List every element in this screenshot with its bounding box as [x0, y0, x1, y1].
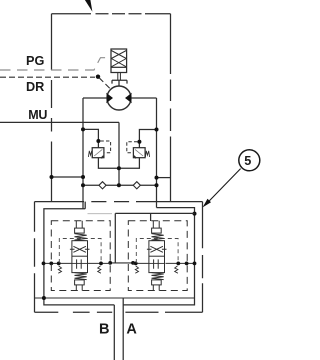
- body rect: [149, 241, 165, 273]
- motor left port line: [83, 97, 107, 99]
- shuttle dot left: [81, 183, 85, 187]
- inner box tab left: [84, 202, 86, 209]
- check spring right: [98, 266, 101, 273]
- dot cross right: [131, 261, 135, 265]
- lower cell pins: [77, 259, 82, 268]
- left valve branch: [83, 129, 98, 147]
- DR dashed line: [0, 76, 95, 78]
- left valve spring: [88, 151, 92, 157]
- dot on right work line: [155, 176, 159, 180]
- T-bar with ticks: [112, 80, 127, 83]
- top spring coil: [75, 234, 87, 241]
- check valve diamond 1: [99, 182, 106, 189]
- bottom spring coil: [75, 273, 87, 280]
- top seat: [152, 228, 162, 233]
- motor right port line: [131, 97, 157, 99]
- svg-text:MU: MU: [28, 108, 47, 122]
- motor right arrowhead: [125, 93, 132, 103]
- svg-text:A: A: [126, 322, 137, 338]
- outer box right edge dashed: [202, 202, 204, 313]
- right cartridge dashed box: [128, 221, 187, 291]
- guides: [153, 221, 159, 228]
- junction dot right branch: [155, 128, 159, 132]
- right valve branch: [139, 130, 156, 148]
- top spring coil: [152, 234, 164, 241]
- shuttle dot right: [155, 183, 159, 187]
- right valve arrow: [135, 149, 143, 156]
- right valve outlet: [119, 158, 139, 169]
- bottom guides: [76, 285, 82, 291]
- right pilot sub-box dashed: [136, 239, 178, 264]
- body rect: [72, 241, 88, 273]
- junction dot left branch: [81, 127, 85, 131]
- leader arrow at top: [85, 0, 93, 12]
- dot on left work line: [81, 175, 85, 179]
- check spring left: [58, 266, 61, 273]
- body mid line: [149, 255, 165, 257]
- motor left arrowhead: [106, 93, 113, 103]
- top seat: [75, 228, 85, 233]
- spring box (control): [111, 49, 127, 73]
- MU down line: [118, 122, 120, 185]
- svg-text:PG: PG: [26, 54, 44, 68]
- gallery through body: [149, 262, 165, 264]
- outer box left edge dashed: [34, 202, 36, 313]
- left work line vertical: [82, 98, 84, 209]
- left cartridge group: [51, 221, 110, 291]
- dot inner box right: [193, 212, 197, 216]
- dots near left cartridge: [49, 262, 53, 266]
- left relief valve box: [92, 148, 104, 158]
- B pipe: [113, 305, 115, 360]
- DR dashed diagonal to motor case: [99, 78, 110, 89]
- central pipe: [115, 213, 194, 263]
- bottom spring coil: [152, 273, 164, 280]
- right valve spring: [145, 151, 149, 157]
- check valve diamond 2: [133, 182, 140, 189]
- valve block outer box: [35, 201, 203, 203]
- left pilot sub-box dashed: [59, 239, 101, 264]
- enclosure left dashed line: [51, 14, 53, 202]
- right cartridge group: [128, 221, 187, 291]
- shuttle line: [83, 184, 157, 186]
- bottom guides: [153, 285, 159, 291]
- gallery through body: [72, 262, 88, 264]
- inner box faint segment: [88, 213, 113, 215]
- inner box tab right: [150, 213, 152, 221]
- junction dot left pilot: [96, 139, 100, 143]
- junction dot MU-outlet: [117, 166, 121, 170]
- dot on enclosure left: [50, 175, 54, 179]
- spring zigzag: [111, 51, 126, 67]
- left drain connector: [52, 176, 84, 178]
- right valve pilot dashed loop: [127, 142, 138, 153]
- left valve outlet: [98, 158, 119, 169]
- outer box top dashed middle: [91, 201, 129, 203]
- control rod (double line): [118, 73, 121, 81]
- dot cross left: [108, 261, 112, 265]
- bottom seat: [152, 280, 162, 285]
- inner box: [44, 208, 195, 305]
- shuttle dot mid: [117, 183, 121, 187]
- dot gallery left: [42, 296, 46, 300]
- check spring left: [135, 266, 138, 273]
- dots near right cartridge: [134, 262, 138, 266]
- junction dot right pilot: [137, 140, 141, 144]
- A pipe: [122, 298, 124, 360]
- left valve pilot dashed loop: [100, 141, 110, 153]
- enclosure right dashed line: [170, 14, 172, 202]
- right work line vertical: [156, 98, 158, 208]
- body mid line: [72, 255, 88, 257]
- svg-text:DR: DR: [26, 80, 44, 94]
- svg-text:5: 5: [244, 154, 251, 168]
- left valve arrow: [94, 149, 102, 156]
- MU line: [0, 121, 119, 123]
- relief gallery line y263: [44, 262, 195, 264]
- PG pilot dashed line: [0, 58, 111, 70]
- drain gallery: [35, 297, 195, 299]
- leader arrowhead: [203, 199, 211, 208]
- right drain connector: [157, 177, 171, 179]
- lower cell pins: [154, 259, 159, 268]
- guides: [76, 221, 82, 228]
- spring box inner line: [111, 66, 127, 68]
- dot gallery inner left: [42, 262, 46, 266]
- DR junction dot: [96, 75, 100, 79]
- left cartridge dashed box: [51, 221, 110, 291]
- outer box bottom dashed: [35, 311, 203, 313]
- svg-text:B: B: [99, 322, 109, 338]
- motor circle: [107, 86, 131, 110]
- rod to motor: [118, 80, 120, 86]
- callout circle 5: [239, 150, 260, 171]
- bowtie arrows: [147, 246, 167, 252]
- enclosure top dashed line: [52, 13, 92, 15]
- cross gallery: [110, 262, 133, 264]
- leader line: [206, 169, 241, 205]
- check spring right: [175, 266, 178, 273]
- right relief valve box: [133, 148, 145, 158]
- bowtie arrows: [70, 246, 90, 252]
- bottom seat: [75, 280, 85, 285]
